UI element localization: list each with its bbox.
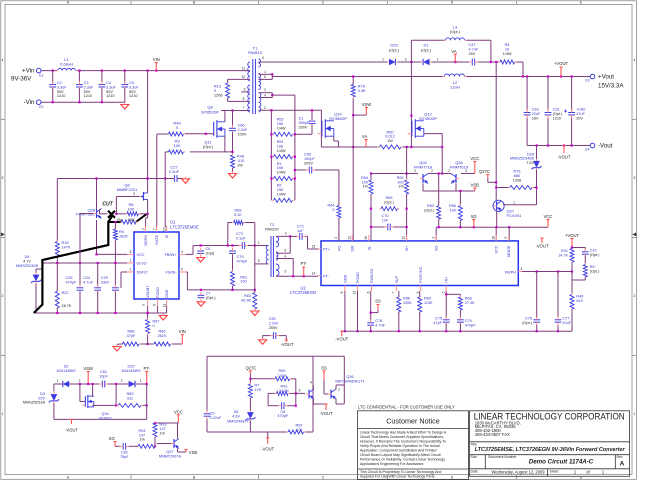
power net VCC at rail	[544, 214, 553, 227]
junction SS node	[370, 312, 372, 314]
label SS bottom label	[321, 365, 327, 370]
junction Q6 gate tap	[115, 213, 117, 215]
label R56 value	[449, 204, 456, 212]
wire C82 to R94	[129, 445, 138, 447]
junction PT- node	[146, 383, 148, 385]
svg-text:10.0K: 10.0K	[279, 389, 289, 393]
wire R4 to output rail	[516, 62, 523, 77]
wire Q12 source to base row	[441, 147, 443, 174]
junction ITH node	[445, 293, 447, 295]
svg-text:15V/3.3A: 15V/3.3A	[598, 83, 624, 90]
label -VOUT Q36 label	[319, 411, 332, 416]
junction R6 NDRV node	[147, 213, 149, 215]
pin number 9 of T1	[244, 87, 246, 91]
label R55 value	[397, 176, 405, 189]
svg-text:E4: E4	[585, 148, 589, 152]
svg-text:1: 1	[513, 200, 515, 204]
junction pin5 node a	[292, 275, 294, 277]
svg-text:R55: R55	[397, 176, 404, 180]
wire Q27 collector right	[503, 204, 537, 206]
pin number 1 of D25	[382, 58, 384, 62]
wire Q34 gate wire	[80, 384, 86, 402]
wire R18 bottom	[56, 256, 58, 263]
svg-text:75pF: 75pF	[120, 455, 129, 459]
svg-text:22V: 22V	[38, 396, 45, 400]
wire U1 PGND GND join	[148, 306, 167, 313]
wire input rail E1 to L1	[41, 70, 58, 72]
svg-text:2: 2	[121, 379, 123, 383]
pin number 3 of Q02	[414, 169, 416, 173]
wire R69 bottom	[419, 312, 421, 331]
wire R56 top stub	[459, 191, 461, 206]
wire T2 pin3 to C71	[276, 235, 297, 237]
resistor R3	[167, 150, 185, 154]
capacitor C66	[229, 125, 236, 134]
svg-text:VSW: VSW	[83, 366, 93, 371]
label SS net label	[375, 299, 381, 304]
junction return rail node x548	[547, 144, 549, 146]
label Q14 label	[329, 112, 347, 122]
label R48 value	[237, 155, 244, 168]
transistor Q6	[140, 192, 148, 201]
wire Q27C jog	[488, 178, 496, 183]
junction R61 bottom node	[231, 289, 233, 291]
wire bias rail from D1 node	[495, 62, 497, 200]
svg-text:50V: 50V	[57, 90, 64, 94]
junction VIN column C27 node	[147, 177, 149, 179]
pin number 5 of T1	[264, 75, 266, 79]
wire T1 pin4 stub	[259, 93, 273, 98]
svg-text:200V: 200V	[304, 161, 313, 165]
label R93 value	[160, 423, 167, 436]
wire R48 top stub	[232, 152, 234, 155]
svg-text:4.7uF: 4.7uF	[469, 47, 479, 51]
svg-text:FS/IN-: FS/IN-	[166, 271, 178, 275]
svg-text:-VOUT: -VOUT	[280, 342, 293, 347]
label R91 value	[279, 385, 289, 394]
pin number 7 of U2	[392, 291, 396, 293]
svg-text:9: 9	[244, 87, 246, 91]
svg-text:PT-: PT-	[300, 261, 307, 266]
pin number 8 of T1	[243, 97, 245, 101]
svg-text:R67: R67	[153, 320, 160, 324]
junction pin5 node b	[303, 275, 305, 277]
inductor L1	[56, 68, 78, 70]
svg-text:7: 7	[392, 291, 396, 293]
wire R3 left to IS column	[165, 152, 168, 227]
power net SS stub	[376, 305, 379, 310]
svg-text:SG: SG	[471, 214, 477, 219]
label D6 part number	[227, 420, 251, 424]
svg-text:-VOUT: -VOUT	[65, 428, 78, 433]
svg-text:2: 2	[633, 294, 635, 298]
svg-text:(Opt.): (Opt.)	[522, 321, 532, 325]
svg-text:-Vin: -Vin	[24, 99, 35, 106]
svg-text:1%: 1%	[160, 431, 166, 435]
label C24 value	[83, 276, 93, 284]
resistor R91	[275, 391, 290, 395]
wire T1 pin3 stub	[259, 92, 273, 94]
svg-text:PT-: PT-	[323, 275, 330, 279]
junction ladder left y134	[270, 133, 272, 135]
svg-text:4.7nF: 4.7nF	[375, 323, 385, 327]
label -VOUT bottom left label	[65, 428, 78, 433]
wire T2 pin8 wire	[255, 263, 269, 265]
power net VSW bottom stub	[87, 372, 90, 385]
svg-text:1: 1	[258, 241, 260, 245]
terminal E2 input -Vin	[36, 100, 43, 109]
svg-text:-VOUT: -VOUT	[535, 244, 548, 249]
svg-text:(Opt.): (Opt.)	[421, 47, 432, 52]
junction output rail node x571	[571, 75, 573, 77]
svg-text:PGND: PGND	[156, 287, 160, 298]
label C8 value	[277, 410, 288, 418]
capacitor C82	[120, 443, 129, 450]
wire D29 PT- wire	[135, 383, 147, 385]
wire left drop to D3	[53, 384, 55, 392]
resistor R51	[272, 155, 294, 159]
svg-text:R94: R94	[139, 429, 146, 433]
label R49 value	[173, 120, 181, 130]
svg-text:7: 7	[153, 228, 157, 230]
label R92 value	[296, 424, 303, 432]
svg-text:(Opt.): (Opt.)	[389, 47, 400, 52]
svg-text:12: 12	[347, 236, 351, 240]
wire PT- drop	[146, 384, 148, 419]
svg-text:Wednesday, August 12, 2009: Wednesday, August 12, 2009	[491, 469, 545, 474]
wire Q37 base wire	[157, 443, 171, 445]
junction R93 R94 node	[154, 445, 156, 447]
svg-text:C2: C2	[57, 81, 62, 85]
wire R56 bottom drop	[459, 221, 461, 228]
transistor Q34	[82, 395, 93, 408]
wire C5 top pin	[124, 71, 126, 84]
label -VOUT mid label	[535, 244, 548, 249]
junction VCC rail node x473	[473, 226, 475, 228]
svg-text:7.50K: 7.50K	[277, 374, 287, 378]
label C82 value	[120, 451, 129, 459]
svg-text:3.3K: 3.3K	[358, 88, 367, 93]
op-amp U2 LTC3726EGN box	[321, 241, 518, 286]
wire Q6 drain up	[147, 179, 149, 194]
svg-text:196: 196	[277, 166, 283, 170]
wire T1 pin1 wire	[259, 74, 273, 76]
svg-text:3: 3	[465, 169, 467, 173]
label U2 name	[290, 285, 316, 295]
svg-text:25V: 25V	[469, 52, 476, 56]
svg-text:C71: C71	[297, 225, 304, 229]
svg-text:Applications Engineering For A: Applications Engineering For Assistance.	[360, 462, 424, 466]
label R94 value	[139, 429, 146, 442]
svg-text:196: 196	[277, 144, 283, 148]
svg-text:1210: 1210	[57, 94, 65, 98]
wire C30 left	[263, 336, 271, 340]
junction L3 riser node	[410, 61, 412, 63]
svg-text:C79: C79	[237, 255, 244, 259]
label CUT text	[102, 201, 113, 207]
resistor R68	[458, 295, 462, 311]
svg-text:Sheet: Sheet	[550, 470, 559, 474]
label D3 label	[23, 392, 46, 405]
wire SW column to U2	[352, 99, 354, 241]
wire C1 top pin	[311, 110, 313, 120]
svg-text:FB/IN+: FB/IN+	[165, 253, 178, 257]
ground C6 ground	[197, 255, 205, 262]
power net +VOUT near E3	[554, 61, 569, 77]
svg-text:MMSZ5230B: MMSZ5230B	[16, 264, 39, 268]
wire RUN/SS column	[370, 291, 372, 320]
power net VCC bottom	[174, 409, 183, 423]
svg-text:10: 10	[163, 227, 167, 231]
capacitor C72	[239, 242, 248, 249]
transistor Q8	[210, 120, 225, 138]
power net -VOUT at C30	[285, 340, 288, 342]
transistor Q36a	[306, 389, 314, 399]
wire left vertical 57	[56, 179, 58, 242]
svg-text:R50: R50	[387, 130, 394, 134]
label C61 value	[99, 370, 108, 378]
svg-text:R18: R18	[62, 241, 69, 245]
svg-text:470pF: 470pF	[277, 414, 288, 418]
wire feedback wire to T2 pin1	[248, 245, 269, 247]
capacitor C61	[99, 381, 108, 388]
svg-text:PT-: PT-	[143, 366, 150, 371]
svg-text:VA: VA	[451, 49, 456, 54]
wire R22 bottom	[56, 308, 58, 313]
pin number 2 of D29	[121, 379, 123, 383]
pin number 9 of U1	[142, 304, 146, 306]
svg-text:R13: R13	[214, 85, 221, 89]
junction VCC net node	[95, 253, 97, 255]
svg-text:11: 11	[163, 304, 167, 308]
junction R76 D28 node	[535, 186, 537, 188]
svg-text:50V: 50V	[106, 90, 113, 94]
junction C1 top node	[311, 109, 313, 111]
resistor R9	[583, 263, 587, 279]
svg-text:C61: C61	[100, 370, 107, 374]
svg-text:E1: E1	[39, 73, 43, 77]
pin number 5 of U1	[181, 268, 183, 272]
svg-text:C8: C8	[280, 410, 285, 414]
pin number 10 of U2	[364, 236, 368, 240]
svg-text:2.2nF: 2.2nF	[238, 128, 248, 132]
capacitor C8	[278, 402, 287, 409]
wire R76 right to D28	[534, 170, 537, 205]
pin number 4 of U1	[181, 250, 183, 254]
svg-text:1W: 1W	[387, 139, 393, 143]
svg-text:R76: R76	[514, 170, 521, 174]
wire T2 pin4 wire	[276, 259, 293, 277]
svg-text:C77: C77	[562, 317, 569, 321]
svg-text:E3: E3	[585, 79, 589, 83]
label C80 value	[576, 108, 585, 121]
svg-text:Supplied For Use With Linear T: Supplied For Use With Linear Technology …	[360, 475, 435, 479]
svg-text:90.9K: 90.9K	[241, 298, 251, 302]
resistor R93	[153, 421, 157, 438]
wire C71 to PT+	[305, 236, 318, 249]
wire L3 riser	[411, 40, 445, 62]
junction VSW node	[87, 383, 89, 385]
svg-text:Date:: Date:	[471, 470, 479, 474]
capacitor C78	[367, 320, 374, 329]
resistor R13	[226, 81, 230, 99]
wire T1 pin5 stub	[259, 74, 273, 79]
junction rail node x370	[370, 330, 372, 332]
wire Q28 emitter drop	[96, 220, 98, 254]
wire R91 left corner	[268, 393, 278, 405]
label Q27C box label	[246, 366, 257, 371]
wire SS jog	[371, 310, 378, 313]
svg-text:-VOUT: -VOUT	[557, 155, 570, 160]
svg-text:0.012: 0.012	[385, 135, 395, 139]
wire Q37 collector up	[177, 423, 179, 439]
svg-text:47uF: 47uF	[576, 112, 585, 116]
svg-text:470pF: 470pF	[465, 323, 476, 327]
svg-text:R92: R92	[296, 424, 303, 428]
wire VIN feed vertical	[147, 71, 149, 179]
wire Q28 base feed	[80, 214, 94, 264]
power net -VOUT Q36 stub	[324, 404, 327, 410]
label R63 value	[241, 294, 251, 302]
label C1 value	[299, 117, 310, 130]
junction Q12 col rail node	[410, 146, 412, 148]
svg-text:However, It Remains The Custom: However, It Remains The Customer's Respo…	[360, 440, 446, 444]
svg-text:C79: C79	[465, 319, 472, 323]
resistor R55	[405, 178, 409, 195]
svg-text:162K: 162K	[119, 234, 128, 238]
wire R13 bottom stub	[227, 98, 229, 101]
label C69 value	[304, 153, 315, 166]
diode D25	[387, 59, 398, 65]
power net SG bottom stub	[113, 442, 116, 447]
svg-text:3.3uF: 3.3uF	[129, 85, 139, 89]
svg-text:C3: C3	[84, 81, 89, 85]
wire U2 VCC pin drop	[495, 227, 497, 241]
svg-text:9: 9	[142, 304, 146, 306]
wire Q12 drain column	[410, 62, 412, 147]
wire C1 bottom	[295, 125, 312, 135]
svg-text:8: 8	[243, 97, 245, 101]
svg-text:9: 9	[416, 291, 420, 293]
resistor Ra	[120, 220, 138, 224]
svg-text:47K: 47K	[255, 388, 262, 392]
svg-text:11: 11	[402, 236, 406, 240]
svg-text:470pF: 470pF	[237, 260, 248, 264]
transistor Q14	[318, 119, 334, 138]
zener diode D4 MMSZ5230B	[31, 273, 41, 284]
pin number 11 of U1	[163, 304, 167, 308]
svg-text:Circuit Board Layout May Signi: Circuit Board Layout May Significantly A…	[360, 453, 441, 457]
wire U2 GND drop	[344, 291, 346, 331]
svg-text:5: 5	[441, 291, 445, 293]
svg-text:3: 3	[504, 237, 508, 239]
inductor L3	[444, 38, 467, 40]
pin number 1 of D29	[140, 379, 142, 383]
resistor R18	[55, 240, 59, 258]
label Q37 label	[159, 450, 182, 458]
junction IS column C27 node	[164, 177, 166, 179]
svg-text:SLP: SLP	[395, 275, 399, 283]
svg-text:0.1uF: 0.1uF	[236, 237, 246, 241]
junction FBPH node C77	[557, 270, 559, 272]
junction rail node x419	[419, 330, 421, 332]
pin number 3 of Q6	[133, 192, 135, 196]
resistor R56	[458, 204, 462, 222]
wire R64 top	[338, 170, 340, 206]
svg-text:Demo Circuit 1174A-C: Demo Circuit 1174A-C	[529, 459, 594, 466]
zener diode D3	[49, 392, 59, 403]
svg-text:1: 1	[264, 70, 266, 74]
label D29 label	[121, 364, 141, 372]
capacitor C80	[564, 109, 575, 118]
svg-text:4: 4	[264, 93, 266, 97]
svg-text:1: 1	[437, 58, 439, 62]
wire T1 pin8	[228, 100, 250, 102]
svg-text:Linear Technology Has Made A B: Linear Technology Has Made A Best Effort…	[360, 431, 447, 435]
wire R6 to NDRV column	[140, 213, 148, 215]
pin number 1 of U1	[130, 259, 132, 263]
wire C3 bottom pin	[78, 88, 80, 102]
svg-text:3: 3	[142, 228, 146, 230]
capacitor C79 small	[229, 248, 236, 257]
svg-text:1210: 1210	[84, 94, 92, 98]
label C10 value	[590, 249, 600, 257]
svg-text:196: 196	[277, 188, 283, 192]
ground C27 ground	[182, 177, 190, 184]
svg-text:3: 3	[405, 58, 407, 62]
terminal E4 output -Vout	[585, 143, 594, 152]
wire U2 SG pin drop	[435, 227, 437, 241]
wire C10 to R9	[584, 256, 586, 265]
label Q34 label	[98, 412, 111, 420]
junction Rb ULVO node	[114, 262, 116, 264]
junction input rail node x79	[78, 70, 80, 72]
svg-text:GND: GND	[343, 274, 347, 283]
junction Q34 gate node	[79, 383, 81, 385]
label C66 value	[238, 124, 248, 137]
svg-text:147K: 147K	[62, 245, 71, 249]
wire R68 column top	[459, 294, 461, 297]
svg-text:R41: R41	[561, 249, 568, 253]
wire Q27 emitter down	[496, 211, 498, 227]
wire C4 bottom pin	[101, 88, 103, 102]
label Rb value	[119, 230, 128, 238]
svg-text:20V: 20V	[576, 117, 583, 121]
pin number 3 of U1	[142, 228, 146, 230]
junction C70 left node	[370, 226, 372, 228]
op-amp U1 LTC3725EMSE box	[134, 232, 179, 299]
pin number 2 of U2	[334, 237, 338, 239]
junction VCC rail node x460	[459, 226, 461, 228]
svg-text:C33: C33	[532, 108, 539, 112]
wire R89 to PT- drop	[143, 404, 147, 406]
svg-text:2.2nF: 2.2nF	[269, 321, 279, 325]
svg-text:470pF: 470pF	[66, 280, 77, 284]
label R41 value	[558, 249, 568, 257]
svg-text:LTC3725EMSE: LTC3725EMSE	[170, 225, 199, 230]
junction ladder right y178	[294, 177, 296, 179]
svg-text:IS-: IS-	[367, 245, 371, 251]
pin number 12 of U2	[347, 236, 351, 240]
wire R58 right leg	[245, 223, 255, 246]
capacitor C70	[385, 224, 394, 231]
pin number 6 of U1	[153, 304, 157, 306]
svg-text:33nF: 33nF	[101, 280, 110, 284]
wire C61 D29 wire	[108, 383, 129, 385]
wire Q34 drain up	[92, 384, 94, 397]
resistor R88	[121, 342, 141, 346]
svg-text:R48: R48	[237, 155, 244, 159]
